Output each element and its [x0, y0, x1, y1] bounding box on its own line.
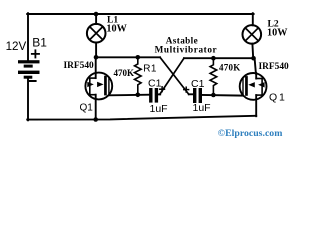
wire Q2 source to bottom rail — [255, 95, 257, 116]
transistor Q1 (right IRF540, mirrored) — [240, 73, 267, 100]
wire right C1 to Q2 gate — [202, 94, 243, 97]
wire C1 right plate stub — [158, 93, 160, 95]
svg-text:470K: 470K — [219, 62, 241, 72]
wire cross-coupling diagonal A (Q1 drain to right C1) — [160, 57, 189, 94]
wire L2 bottom lead — [251, 44, 254, 59]
svg-text:C1: C1 — [148, 78, 162, 90]
svg-text:470K: 470K — [114, 68, 135, 78]
svg-text:Q1: Q1 — [80, 103, 94, 114]
svg-text:R1: R1 — [143, 63, 157, 74]
battery + sign — [32, 50, 39, 57]
lamp L1 — [87, 24, 106, 43]
wire right coupling rail (diagonal B top to L2 bottom node) — [184, 57, 254, 59]
node R1 bottom junction dot — [136, 93, 141, 98]
wire battery top — [27, 13, 29, 60]
svg-text:10W: 10W — [106, 23, 127, 34]
lamp L2 — [243, 25, 262, 44]
svg-text:B1: B1 — [32, 36, 47, 50]
svg-text:©Elprocus.com: ©Elprocus.com — [218, 128, 283, 139]
capacitor C1 (left) plates — [149, 88, 158, 103]
plus sign of right C1 — [184, 87, 189, 92]
wire L1 top lead — [95, 14, 97, 24]
wire top rail — [27, 13, 253, 15]
node Q1 source junction dot on bottom rail — [93, 117, 98, 122]
transistor Q1 (left IRF540) — [85, 57, 112, 119]
wire battery bottom — [27, 79, 29, 120]
node A junction dot top of L1 — [94, 12, 99, 17]
svg-text:Q1: Q1 — [269, 91, 287, 103]
battery - sign — [30, 80, 36, 82]
svg-text:Multivibrator: Multivibrator — [155, 45, 218, 55]
svg-text:1uF: 1uF — [193, 102, 211, 114]
svg-text:12V: 12V — [6, 40, 27, 53]
wire L2 node to Q2 drain — [255, 58, 256, 73]
wire Q1 gate to C1 left plate — [109, 94, 150, 97]
wire drain node to diagonal (left coupling rail) — [96, 56, 160, 58]
svg-text:1uF: 1uF — [150, 103, 168, 115]
node drain Q1 junction dot — [94, 55, 99, 60]
capacitor C1 (right) plates — [193, 88, 202, 103]
node R2 bottom junction dot — [211, 93, 216, 98]
svg-text:IRF540: IRF540 — [259, 62, 290, 72]
wire L1 bottom lead — [95, 43, 97, 58]
svg-text:IRF540: IRF540 — [64, 61, 95, 71]
node R1 top junction dot — [136, 55, 141, 60]
wire L2 top lead — [252, 13, 254, 25]
battery B1 — [18, 60, 40, 78]
wire cross-coupling diagonal B (Q2 drain to left C1) — [160, 58, 184, 94]
resistor 470K (right) — [210, 58, 217, 95]
node R2 top junction dot — [211, 56, 216, 61]
wire stub diagonal A to right C1 plate — [189, 93, 193, 95]
svg-text:C1: C1 — [191, 78, 205, 90]
wire bottom rail — [27, 116, 256, 120]
node L2 bottom junction dot — [251, 56, 256, 61]
svg-text:10W: 10W — [267, 27, 288, 38]
plus sign of left C1 — [160, 87, 165, 92]
resistor R1 470K (left) — [135, 57, 142, 94]
